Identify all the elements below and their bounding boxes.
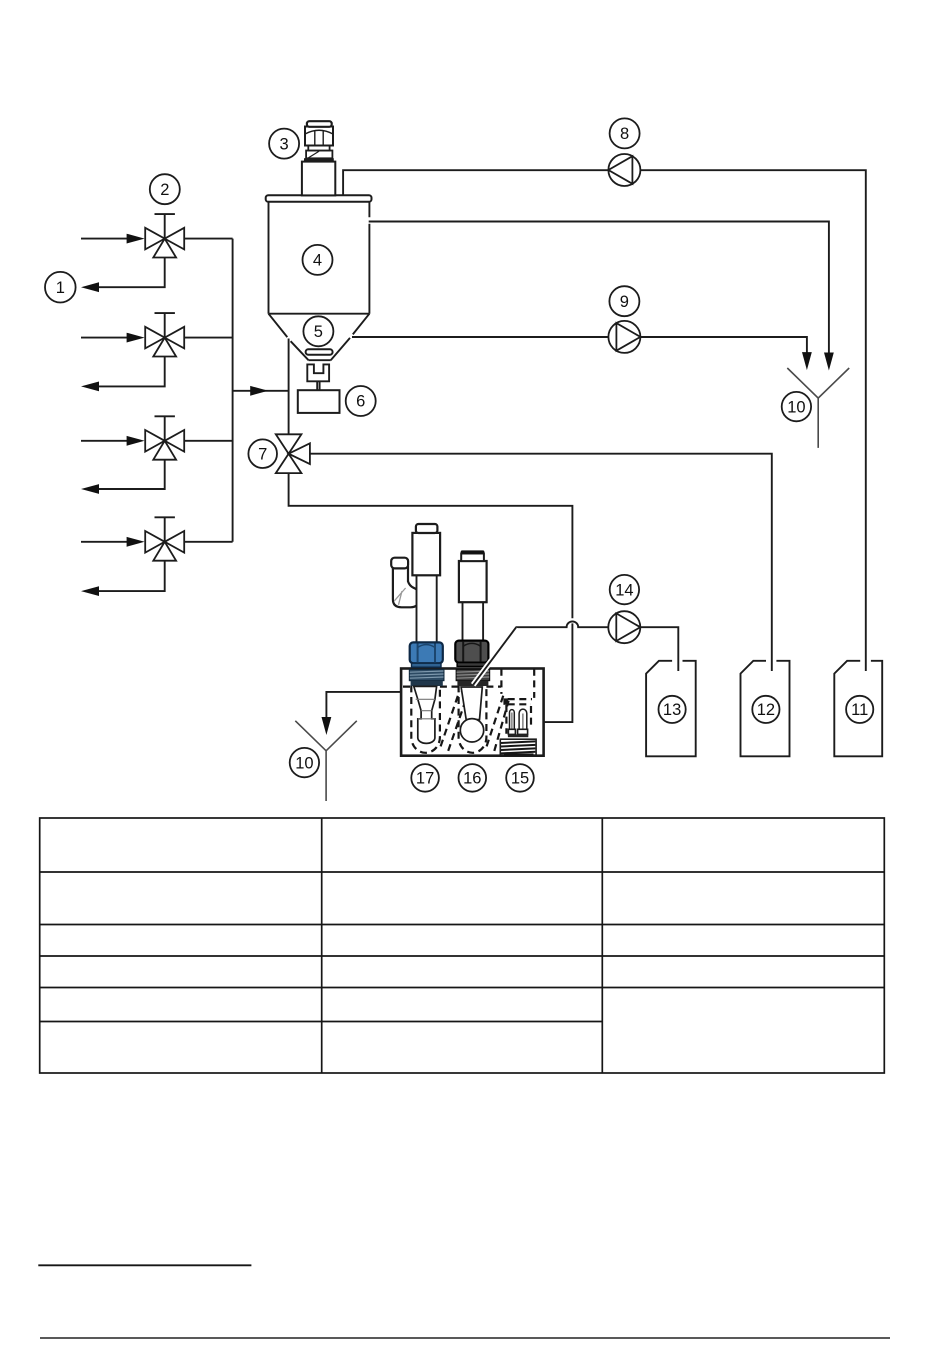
svg-text:14: 14 bbox=[615, 581, 633, 599]
wire (sample inlet 1) bbox=[81, 234, 145, 244]
node 9 bbox=[609, 286, 639, 316]
node 10 left bbox=[290, 748, 319, 777]
wire (sample outlet 2) bbox=[81, 357, 165, 392]
wire (valve to bus 4) bbox=[184, 541, 232, 543]
sensor 17 shaft bbox=[417, 570, 437, 644]
container 13 (reagent bottle) bbox=[646, 661, 696, 757]
svg-text:17: 17 bbox=[416, 770, 434, 788]
gland 3 washer bbox=[308, 146, 329, 151]
sensor 16 upper body bbox=[459, 561, 487, 602]
node 4 bbox=[303, 245, 333, 275]
svg-text:8: 8 bbox=[620, 125, 629, 143]
wire bbox=[473, 621, 678, 684]
wire bbox=[233, 386, 289, 396]
svg-text:9: 9 bbox=[620, 293, 629, 311]
pump 9 bbox=[608, 321, 640, 353]
wire (sample inlet 3) bbox=[81, 436, 145, 446]
sensor 17 upper body bbox=[412, 533, 440, 575]
svg-text:11: 11 bbox=[851, 701, 868, 719]
svg-text:16: 16 bbox=[463, 770, 481, 788]
vessel U1 body (mixing/reaction vessel) bbox=[269, 202, 370, 314]
measuring cell block bbox=[401, 669, 543, 756]
wire bbox=[369, 222, 834, 371]
valve 3 (3-way sample valve) bbox=[145, 416, 184, 459]
node 6 bbox=[346, 386, 376, 416]
wire bbox=[322, 692, 402, 735]
container 12 (reagent bottle) bbox=[741, 661, 790, 757]
valve 7 (3-way drain valve) bbox=[276, 434, 310, 473]
node 15 bbox=[506, 764, 534, 792]
wire bbox=[352, 337, 812, 370]
wire (sample inlet 2) bbox=[81, 333, 145, 343]
sensor 17 blue collar nut bbox=[410, 642, 443, 667]
cell transfer channel dashed diagonals bbox=[441, 691, 509, 751]
svg-text:5: 5 bbox=[314, 323, 323, 341]
sensor 17 tip inside cell bbox=[414, 686, 437, 743]
svg-text:3: 3 bbox=[280, 135, 289, 153]
gland 3 collar band bbox=[304, 158, 334, 162]
svg-text:10: 10 bbox=[787, 398, 805, 416]
pump 14 bbox=[608, 611, 640, 643]
container 11 (reagent bottle) bbox=[834, 661, 882, 757]
node 12 bbox=[752, 696, 779, 723]
sensor 16 dark collar nut bbox=[455, 641, 488, 667]
node 1 (sample out) bbox=[45, 272, 76, 303]
wire (sample inlet 4) bbox=[81, 537, 145, 547]
footer rule bbox=[40, 1337, 890, 1339]
gland 3 neck bbox=[302, 162, 335, 196]
node 10 right bbox=[782, 392, 811, 421]
svg-text:1: 1 bbox=[56, 279, 65, 297]
cell top dashed header bbox=[403, 685, 501, 687]
wire (sample outlet 3) bbox=[81, 460, 165, 494]
wire bbox=[288, 339, 290, 435]
svg-text:10: 10 bbox=[295, 754, 313, 772]
footnote rule bbox=[38, 1264, 251, 1266]
wire bbox=[289, 473, 573, 722]
table (parts list, empty cells) bbox=[40, 818, 885, 1073]
svg-text:6: 6 bbox=[356, 393, 365, 411]
cell chamber (under 17, dashed) bbox=[411, 685, 440, 752]
node 11 bbox=[846, 696, 873, 723]
svg-text:15: 15 bbox=[511, 770, 529, 788]
sensor 16 tapered tip and bulb inside cell bbox=[460, 687, 483, 742]
gland 3 hex nut bbox=[305, 127, 333, 146]
wire (valve to bus 1) bbox=[184, 238, 232, 240]
electrode 15 pins bbox=[510, 709, 527, 729]
wire (valve to bus 2) bbox=[184, 337, 232, 339]
wire (sample outlet 4) bbox=[81, 561, 165, 596]
cell chamber (under 16, dashed) bbox=[459, 685, 487, 752]
wire (sample outlet 1) bbox=[81, 258, 165, 293]
node 3 bbox=[269, 129, 299, 159]
gland 3 jam nut bbox=[306, 151, 332, 159]
svg-text:4: 4 bbox=[313, 252, 322, 270]
sensor 16 shaft bbox=[463, 598, 484, 642]
svg-text:7: 7 bbox=[258, 445, 267, 463]
node 16 bbox=[459, 764, 487, 792]
electrode 15 pin bases bbox=[508, 729, 528, 737]
cell electrode channel dashed bbox=[501, 669, 534, 734]
svg-text:2: 2 bbox=[160, 181, 169, 199]
sensor 16 threads into cell bbox=[456, 669, 489, 686]
sensor 17 threads into cell bbox=[409, 669, 444, 686]
electrode 15 threaded plug bbox=[500, 739, 536, 755]
sensor 16 top cap bbox=[461, 550, 485, 561]
svg-text:12: 12 bbox=[757, 701, 775, 719]
valve 4 (3-way sample valve) bbox=[145, 517, 184, 560]
funnel 10 (right drain) bbox=[787, 368, 849, 448]
node 5 bbox=[303, 316, 333, 346]
funnel 10 (left drain) bbox=[295, 721, 357, 801]
pump 8 bbox=[608, 154, 640, 186]
wire bbox=[232, 239, 234, 542]
valve 1 (3-way sample valve) bbox=[145, 214, 184, 257]
node 17 bbox=[411, 764, 439, 792]
stirrer motor 6 bbox=[298, 390, 340, 413]
stirrer coupling bracket bbox=[307, 364, 329, 381]
sensor 17 top cap bbox=[416, 524, 438, 533]
node 14 bbox=[610, 575, 639, 604]
wire bbox=[343, 170, 866, 671]
wire (cell feed diagonal) bbox=[473, 627, 516, 685]
valve 2 (3-way sample valve) bbox=[145, 313, 184, 356]
stirrer shaft bbox=[317, 381, 319, 390]
wire bbox=[310, 454, 772, 671]
vessel U1 funnel bottom bbox=[269, 314, 370, 361]
sensor 17 side elbow bbox=[391, 558, 420, 608]
node 13 bbox=[659, 696, 686, 723]
wire (valve to bus 3) bbox=[184, 440, 232, 442]
gland 3 top cap bbox=[307, 121, 332, 127]
node 2 (sample valve label) bbox=[150, 174, 180, 204]
cell channel port (black) bbox=[503, 698, 508, 704]
node 8 bbox=[610, 118, 640, 148]
svg-text:13: 13 bbox=[663, 701, 681, 719]
stir bar 5 bbox=[306, 349, 333, 354]
node 7 bbox=[248, 439, 277, 468]
vessel U1 lid bbox=[266, 195, 372, 202]
